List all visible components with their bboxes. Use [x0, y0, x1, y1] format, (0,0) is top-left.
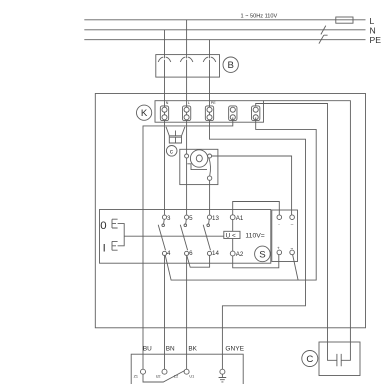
svg-text:N: N: [166, 101, 169, 105]
wire protector lower to contact 13: [209, 180, 211, 215]
svg-text:U1: U1: [189, 375, 194, 379]
svg-text:K: K: [141, 108, 148, 119]
svg-text:U2: U2: [156, 375, 161, 379]
wire N drop to terminal 1: [164, 30, 166, 215]
svg-text:-: -: [278, 222, 280, 227]
svg-text:BU: BU: [143, 345, 152, 352]
motor terminal U2: [162, 369, 167, 374]
ground symbol: [219, 374, 227, 382]
protector terminal left: [185, 154, 189, 158]
wire terminal 5 bottom aux loop to contact 4: [165, 117, 316, 280]
svg-text:PE: PE: [370, 35, 382, 45]
wire A2 to rectifier: [233, 255, 279, 268]
wire L drop to terminal 2: [186, 20, 188, 215]
enclosure outline: [95, 94, 365, 328]
motor thermal switch: [143, 371, 185, 383]
capacitor suppressor element: [170, 131, 182, 144]
contact 3-4: [158, 215, 171, 257]
svg-text:Z1: Z1: [134, 375, 138, 379]
rectifier terminal top right: [290, 215, 295, 220]
wire protector to rectifier ac: [212, 156, 292, 215]
svg-text:3: 3: [167, 215, 171, 222]
coil terminal A2: [230, 251, 235, 256]
wire PE supply line: [84, 39, 365, 41]
contact 5-6: [180, 215, 193, 257]
motor terminal Z1: [141, 369, 146, 374]
svg-text:A2: A2: [236, 251, 244, 258]
terminal unit 5: [252, 106, 260, 121]
label K: [137, 105, 152, 120]
thermal protector O box: [180, 149, 218, 184]
run capacitor plates: [337, 354, 341, 366]
svg-text:B: B: [228, 60, 234, 71]
fuse F1 on L: [336, 17, 353, 23]
rectifier box: [272, 210, 298, 262]
surge arrester B box: [156, 55, 220, 78]
svg-text:~: ~: [290, 246, 293, 251]
terminal unit 1: [160, 101, 168, 120]
run capacitor box: [319, 342, 360, 376]
label C: [302, 351, 318, 367]
svg-text:U <: U <: [226, 232, 236, 239]
rectifier terminal bottom right: [290, 250, 295, 255]
svg-text:5: 5: [189, 215, 193, 222]
rectifier terminal bottom left: [277, 250, 282, 255]
wire PE drop to terminal 3 then right and down to motor ground: [210, 40, 306, 370]
svg-text:L: L: [188, 101, 190, 105]
protector disc O: [190, 150, 207, 167]
wire contact 6 to contact 14 loop: [187, 256, 210, 267]
svg-text:BN: BN: [166, 345, 175, 352]
motor terminal PE: [220, 369, 225, 374]
arrester element phase 1: [158, 57, 171, 62]
node PE break mark: [319, 35, 328, 43]
motor terminal box: [131, 354, 243, 384]
protector terminal right: [208, 154, 212, 158]
terminal unit 2: [182, 101, 190, 120]
node N break mark: [321, 26, 326, 35]
svg-text:S: S: [259, 249, 265, 260]
svg-text:14: 14: [212, 250, 219, 257]
arrester element phase 2: [180, 57, 193, 62]
svg-text:–: –: [291, 222, 294, 227]
main contactor S box: [100, 210, 271, 264]
wire strip edge to capacitor right lead: [264, 101, 351, 361]
svg-text:6: 6: [189, 250, 193, 257]
svg-text:13: 13: [212, 215, 219, 222]
svg-text:c: c: [170, 148, 174, 155]
svg-text:+: +: [277, 245, 280, 250]
wire N supply line: [84, 29, 365, 31]
svg-text:BK: BK: [188, 345, 197, 352]
svg-text:PE: PE: [211, 101, 216, 105]
wire rectifier diag to aux: [293, 255, 299, 281]
switch linkage: [118, 224, 224, 246]
protector heater step: [187, 164, 207, 170]
terminal unit 3: [205, 101, 216, 120]
wire terminal 4 bottom to motor BU: [143, 117, 233, 369]
wire A1 to rectifier: [233, 202, 280, 215]
wire A1 to undervoltage coil: [232, 219, 234, 251]
svg-text:4: 4: [167, 250, 171, 257]
wire terminal 5 top to capacitor left lead: [256, 104, 337, 361]
svg-text:GNYE: GNYE: [225, 345, 244, 352]
suppressor filter can: [166, 127, 185, 143]
wire contact 4 to motor BN: [164, 256, 166, 369]
svg-text:C: C: [306, 354, 313, 365]
switch button I: [112, 241, 118, 250]
svg-text:110V=: 110V=: [245, 233, 264, 240]
svg-text:1 ~ 50Hz 110V: 1 ~ 50Hz 110V: [241, 14, 278, 20]
protector switch arc: [209, 158, 211, 176]
wire L supply line: [84, 19, 365, 21]
contact 13-14: [203, 215, 219, 257]
arrester element phase 3: [203, 57, 216, 62]
switch button 0: [112, 219, 118, 228]
motor terminal Z2: [184, 369, 189, 374]
label S: [255, 246, 271, 262]
terminal strip K box: [155, 101, 264, 123]
protector terminal lower: [207, 176, 211, 180]
svg-text:I: I: [103, 242, 106, 254]
rectifier terminal top left: [277, 215, 282, 220]
undervoltage release U box: [224, 231, 240, 238]
terminal unit 4: [229, 106, 237, 121]
label B: [223, 57, 238, 72]
label c small: [166, 146, 177, 157]
svg-text:0: 0: [100, 220, 106, 232]
wire contact 6 to motor BK: [186, 256, 188, 369]
coil terminal A1: [230, 215, 235, 220]
svg-text:A1: A1: [236, 215, 244, 222]
